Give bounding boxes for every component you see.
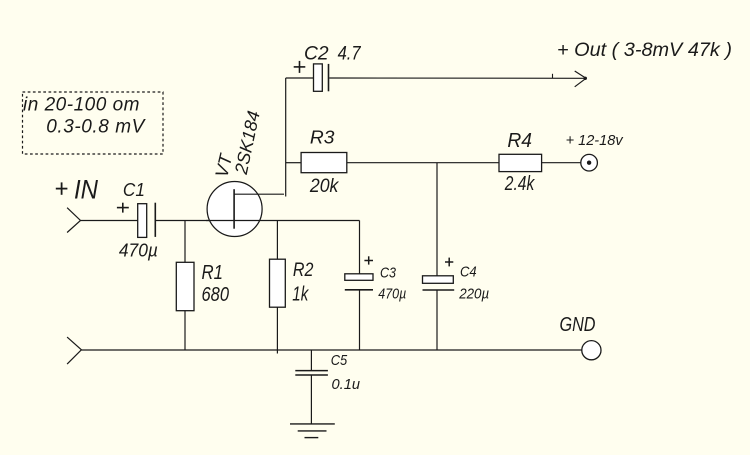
- wire: R1 bottom lead: [184, 311, 186, 350]
- svg-text:C1: C1: [123, 180, 145, 200]
- wire: R1 top lead: [184, 221, 186, 263]
- svg-text:0.3-0.8 mV: 0.3-0.8 mV: [46, 117, 146, 138]
- output line tick: [552, 74, 554, 78]
- label + IN plus: [56, 182, 68, 194]
- svg-text:IN: IN: [74, 174, 98, 204]
- wire: drain line: [234, 193, 284, 195]
- svg-text:20k: 20k: [309, 176, 340, 197]
- wire: input to C1: [81, 220, 138, 222]
- capacitor C3: [345, 274, 373, 290]
- transistor VT circle: [207, 182, 262, 237]
- note box (dashed): [23, 92, 164, 154]
- svg-text:C4: C4: [460, 264, 477, 281]
- wire: R3 left lead: [286, 162, 301, 164]
- wire: C3 top lead: [359, 221, 361, 274]
- resistor R1: [176, 262, 194, 310]
- capacitor C5: [295, 371, 328, 375]
- svg-text:+ Out ( 3-8mV 47k ): + Out ( 3-8mV 47k ): [557, 39, 732, 61]
- svg-text:C2: C2: [304, 43, 329, 64]
- power terminal circle: [581, 154, 598, 171]
- resistor R2: [270, 259, 286, 307]
- svg-text:1k: 1k: [292, 283, 309, 305]
- wire: C5 to ground: [310, 375, 312, 424]
- wire: R4 to power terminal: [542, 162, 581, 164]
- svg-text:C3: C3: [380, 265, 397, 282]
- capacitor C1 plus sign: [117, 203, 129, 213]
- svg-text:0.1u: 0.1u: [332, 376, 361, 393]
- svg-text:470µ: 470µ: [378, 286, 406, 303]
- svg-text:470µ: 470µ: [119, 240, 158, 260]
- transistor channel bar: [233, 189, 235, 229]
- svg-text:R1: R1: [202, 262, 224, 284]
- wire: gate-source line through transistor: [206, 220, 360, 222]
- resistor R4: [499, 154, 542, 171]
- svg-text:+ 12-18v: + 12-18v: [566, 132, 624, 149]
- ground terminal circle: [582, 341, 601, 360]
- wire: C4 bottom lead: [436, 290, 438, 350]
- ground symbol: [290, 424, 335, 438]
- capacitor C2: [314, 64, 329, 91]
- wire: to C2 left plate: [286, 77, 314, 79]
- wire: C1 to transistor gate: [156, 220, 234, 222]
- svg-text:220µ: 220µ: [458, 286, 489, 303]
- svg-text:2.4k: 2.4k: [504, 173, 535, 195]
- resistor R3: [301, 153, 347, 173]
- capacitor C2 plus sign: [294, 61, 306, 73]
- wire: C5 top lead: [310, 350, 312, 371]
- wire: output line: [329, 77, 586, 79]
- wire: R2 bottom lead: [276, 307, 278, 353]
- wire: C3 bottom lead: [359, 290, 361, 350]
- svg-text:680: 680: [202, 284, 230, 306]
- wire: drain junction vertical to C2: [285, 78, 287, 197]
- capacitor C3 plus sign: [364, 256, 373, 264]
- wire: C4 top lead: [436, 163, 438, 276]
- output arrow head: [575, 71, 587, 87]
- svg-text:C5: C5: [331, 352, 348, 369]
- svg-text:R3: R3: [310, 128, 335, 148]
- svg-text:4.7: 4.7: [338, 43, 362, 64]
- wire: bottom bus: [81, 349, 581, 351]
- wire: R3 to R4: [347, 162, 499, 164]
- capacitor C1: [138, 203, 156, 238]
- capacitor C4: [423, 276, 455, 290]
- wire: R2 top lead: [276, 221, 278, 260]
- svg-text:GND: GND: [560, 313, 596, 336]
- input terminal arrow (top): [67, 208, 80, 233]
- input terminal arrow (bottom): [67, 337, 81, 364]
- svg-text:R4: R4: [507, 130, 532, 152]
- svg-text:in 20-100 om: in 20-100 om: [23, 95, 140, 116]
- svg-text:R2: R2: [293, 260, 314, 281]
- capacitor C4 plus sign: [445, 258, 453, 267]
